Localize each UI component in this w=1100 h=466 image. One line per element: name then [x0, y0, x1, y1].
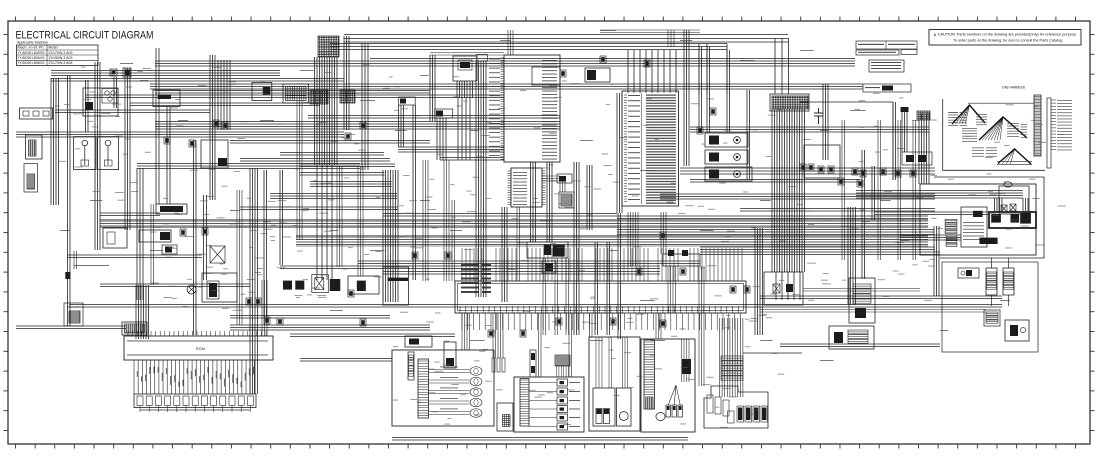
wire bus y262 — [358, 261, 700, 264]
wire bus y95 — [85, 95, 504, 98]
hatch box x559 — [559, 192, 574, 208]
wire bundle x168 — [167, 106, 170, 204]
wire bundle x619 — [617, 93, 622, 213]
wire verticals x462 low — [462, 313, 470, 350]
svg-text:Model: Model — [49, 46, 58, 50]
svg-text:CAB HARNESS: CAB HARNESS — [1002, 86, 1025, 90]
svg-text:Applicable Machine: Applicable Machine — [17, 41, 48, 45]
wire bus y78 left — [51, 79, 344, 82]
wire bundle x503 — [502, 207, 507, 302]
wire bundle x576 — [574, 162, 579, 335]
harness enclosure — [943, 99, 1045, 170]
glow plug box — [453, 54, 487, 81]
resistor col — [408, 352, 414, 380]
wire bus y288 right — [803, 289, 920, 292]
connector x984 low — [984, 310, 1000, 326]
battery symbol — [24, 164, 38, 192]
box x1005 low — [1005, 320, 1029, 341]
box x103 — [103, 228, 127, 248]
wire bus y311 right — [760, 310, 986, 313]
box x829 — [829, 326, 874, 349]
wire bundle x320 dense — [315, 57, 338, 165]
wiper motor cluster box — [589, 337, 640, 431]
relay box x585 — [585, 68, 610, 82]
cluster top box — [405, 336, 432, 347]
wire link monitor — [542, 176, 565, 192]
wire staircase left2 — [240, 153, 395, 167]
connector cap x924 — [917, 111, 930, 120]
wire verticals x540 low — [539, 313, 542, 377]
harness peak 1 — [952, 105, 985, 124]
box x804 — [804, 145, 840, 178]
junction cluster x470 — [461, 264, 491, 293]
fusible link symbols — [110, 68, 131, 77]
connector box x262 — [252, 83, 272, 101]
wire bundle x775 turns — [775, 38, 789, 94]
wire bundle x873 — [872, 166, 875, 220]
ECM harness wires — [134, 360, 254, 394]
label strip 1 — [856, 41, 917, 49]
wire bus y142 — [230, 141, 430, 144]
relay R2 — [435, 109, 453, 118]
connector hatch block top — [318, 36, 339, 57]
inner box relays — [999, 186, 1029, 214]
ECM connector above — [122, 322, 147, 335]
wire bus y71 left — [51, 71, 280, 76]
wires above junction box — [462, 248, 742, 281]
wire bundle x788 dense — [772, 109, 805, 272]
relay unit row 2 — [705, 150, 748, 164]
svg-text:ZX170W-3 A05: ZX170W-3 A05 — [49, 61, 73, 65]
wire bundle x1025 — [1023, 198, 1028, 212]
tall comp x444 — [444, 342, 456, 368]
wire bus y166 left — [137, 164, 360, 169]
buzzer — [162, 245, 177, 254]
wire bundle x619 low — [618, 213, 621, 339]
wire drops top y21 — [600, 30, 700, 47]
svg-text:YY-B02001-B04000: YY-B02001-B04000 — [18, 56, 45, 60]
ECM controller box — [124, 331, 273, 360]
inner outline junction box — [458, 284, 744, 311]
harness right ticks — [1051, 100, 1072, 150]
wire bundle x156 — [156, 48, 159, 204]
wire bus y326 — [230, 325, 430, 330]
wire bus y103 — [130, 103, 320, 106]
solenoid enclosure box — [942, 262, 1038, 352]
wire bus y147 — [398, 147, 504, 152]
wire bus y225 thicken — [100, 220, 928, 227]
wire bundle x320 lower — [317, 165, 332, 280]
harness peak 3 — [998, 149, 1031, 164]
dark row — [979, 238, 997, 244]
pump control enclosure — [920, 184, 1036, 255]
ECM feed bundle right — [262, 280, 267, 336]
wire bus y62 left ext — [155, 61, 370, 66]
wire verticals x338 low — [337, 166, 342, 267]
harness labels right2 — [1007, 123, 1027, 138]
wire bundle x708 — [707, 47, 710, 133]
wire bundle x390 — [383, 170, 398, 302]
wire bundle x414 — [413, 105, 416, 280]
wire bundle x728 — [727, 50, 730, 133]
wire bus y158 — [440, 158, 504, 161]
connector hatch block x788 — [770, 94, 809, 111]
wire bundle x788 low — [776, 272, 800, 300]
relay unit row 3 — [705, 167, 752, 181]
tall connector x530 — [530, 350, 536, 377]
wire bundle x936 — [934, 226, 939, 296]
inner box left — [961, 207, 987, 247]
wire bus y132 left — [16, 132, 344, 137]
wire bus top C — [370, 59, 855, 67]
wire bus y110 — [55, 110, 210, 113]
wire bundle x700 — [699, 47, 702, 133]
small box left — [64, 303, 83, 326]
title text — [16, 30, 154, 42]
terminal grid box — [283, 84, 309, 103]
switch panel cluster box — [514, 377, 584, 432]
wire bundle x432 — [430, 55, 435, 121]
wire bus y255 left — [68, 255, 202, 266]
wire verticals x495 low — [493, 313, 503, 358]
wire bundle below fusepanel — [628, 212, 676, 313]
fuse box — [20, 108, 53, 119]
wire bus y249 — [700, 247, 935, 250]
wire bus y326 left — [16, 326, 126, 329]
connector stack x730 — [721, 356, 743, 380]
svg-text:J/C: J/C — [590, 296, 596, 300]
flasher box — [156, 204, 187, 214]
wire bus boxA feed2 — [875, 212, 989, 215]
wire bus top A — [344, 35, 788, 43]
relay R1 — [399, 97, 416, 105]
lamp L1 — [187, 285, 196, 294]
wire bundle x252 — [250, 168, 258, 394]
solenoid valve unit box — [989, 212, 1036, 228]
wire bus y335 — [290, 334, 455, 337]
wire bus top B — [330, 44, 727, 50]
reservoir box 2 — [98, 137, 119, 170]
relay strip row — [283, 275, 340, 293]
wire bundle x86 — [86, 80, 89, 132]
small box x958 — [958, 268, 979, 278]
wire bus y232 — [617, 230, 934, 235]
harness labels right1 — [976, 114, 987, 125]
svg-text:YY-A00001-B02000: YY-A00001-B02000 — [18, 51, 45, 55]
wire bundle x440 — [437, 118, 446, 160]
capacitor C1 — [814, 108, 823, 124]
wire bus y296 right — [760, 296, 1002, 299]
wire drops tallbox top — [628, 50, 676, 93]
label strip 4 — [863, 84, 911, 92]
wire bus y129 right — [690, 127, 929, 132]
wire bundle x608 — [607, 242, 610, 335]
harness label — [1002, 86, 1025, 90]
wire bus y273 — [383, 272, 660, 275]
wire bundle x221 — [218, 60, 230, 130]
bundle x685 — [682, 339, 690, 382]
harness peak 2 — [979, 117, 1027, 140]
wire bundle x924 — [919, 113, 929, 184]
wire verticals x360 — [358, 166, 363, 276]
wire bundle x533 — [531, 162, 536, 242]
svg-text:ECM: ECM — [196, 346, 205, 351]
wire corner x893 — [800, 102, 893, 180]
wire bundle x125 — [125, 68, 130, 230]
connector hatch pair — [310, 90, 355, 104]
wire bundle x281 — [280, 170, 283, 265]
wire verticals x518 — [517, 207, 520, 281]
wide junction harness box — [455, 281, 746, 313]
svg-text:ZX190W-3 A03: ZX190W-3 A03 — [49, 56, 73, 60]
wire bus y215 left — [100, 213, 160, 216]
box x383 bar — [383, 267, 409, 305]
relay X x210 — [210, 246, 225, 263]
junction box x764 — [764, 272, 803, 305]
oval sensor — [1004, 182, 1012, 187]
wire bus y214 mid — [383, 214, 617, 217]
harness labels left2 — [962, 128, 977, 142]
wire bus y50 mid — [430, 53, 504, 56]
small box x557 — [557, 174, 572, 183]
wires below junction box — [462, 313, 740, 330]
wire bus y305 long — [69, 305, 1002, 308]
wire verticals x840-940 — [842, 120, 916, 260]
svg-text:Mach. in ref. Ph.: Mach. in ref. Ph. — [18, 46, 45, 50]
box x348 — [348, 276, 379, 294]
wire bus y285 — [100, 284, 250, 287]
wire bundle x686 — [684, 30, 689, 166]
component box x201 — [201, 140, 228, 168]
wire bundle x549 — [547, 162, 552, 242]
wire bundle x464 lower — [458, 98, 470, 160]
wire verticals x550-620 mid — [543, 258, 569, 335]
wire bundle x211 — [210, 55, 215, 200]
wire bundle x204 — [204, 195, 207, 280]
label strip 2 — [856, 50, 917, 56]
tiny wire labels — [55, 64, 1066, 428]
cluster wires rm — [596, 337, 628, 388]
wire bus y117 mid — [308, 116, 560, 119]
box x663 — [663, 250, 700, 266]
reservoir box 1 — [74, 137, 96, 170]
wire bundle x759 — [755, 228, 763, 335]
label strip 3 — [869, 60, 904, 72]
wire bus y196 — [660, 194, 935, 199]
wire bus y360 mid — [300, 359, 392, 362]
wire verticals x655 low — [656, 313, 661, 339]
harness labels p3 — [997, 161, 1032, 165]
wire bundle x589 — [587, 165, 592, 230]
caution note box — [929, 30, 1081, 46]
svg-text:▲ CAUTION: Parts numbers on th: ▲ CAUTION: Parts numbers on the drawing … — [933, 33, 1077, 37]
wire bus y124 — [155, 122, 560, 130]
wire verticals x152 mid — [151, 204, 154, 285]
svg-text:ZX170W-3 A03: ZX170W-3 A03 — [49, 51, 73, 55]
wire bundle x705 turns — [699, 44, 727, 95]
wire bus y181 right — [690, 180, 860, 183]
wire bundle x95 — [95, 62, 100, 250]
wire bundle x114 — [114, 77, 117, 108]
wire verticals x446 — [444, 160, 455, 281]
wire name labels — [60, 30, 1010, 361]
connector box x849 — [849, 278, 875, 323]
harness labels left1 — [948, 112, 967, 126]
wire bundle x464 glow — [457, 81, 473, 98]
small inline connectors — [164, 56, 916, 337]
harness labels mid — [972, 148, 997, 157]
harness trunk bar — [1034, 95, 1041, 156]
wire bus y317 — [230, 316, 390, 319]
box x139 — [139, 230, 171, 242]
monitor unit box — [508, 168, 546, 207]
hatch stack B — [946, 235, 957, 247]
wire bus y241 thicken — [296, 236, 928, 246]
wire bundle x194 — [194, 140, 197, 335]
harness bundle x730 — [720, 318, 743, 397]
wire bus y84 — [150, 84, 863, 89]
relay unit row 1 — [705, 133, 748, 147]
work lamp cluster box — [392, 350, 494, 426]
component box with inner parts — [83, 88, 118, 116]
wire bundle x481 — [476, 61, 486, 297]
wire staircase mid-left — [240, 173, 398, 210]
wire bundle x137 ecm feed — [136, 285, 149, 339]
wire bundle x346 — [344, 36, 349, 130]
wire verticals x570 low — [569, 313, 572, 377]
hatch stack A — [945, 219, 957, 233]
wire bus boxA feed3 — [900, 235, 961, 240]
wire verticals x700 low — [699, 266, 704, 386]
wire bundle x998 boxA — [995, 198, 1003, 212]
wire bus y241 — [296, 237, 928, 245]
sensor x542 — [542, 261, 556, 273]
wire bundle x748 — [747, 90, 750, 180]
wire bundle x894 — [893, 102, 896, 180]
pump cluster box — [704, 386, 768, 428]
wire verticals x240 down — [237, 190, 242, 325]
applicable machine label — [17, 41, 48, 45]
wire bundle x851 — [848, 207, 856, 305]
wire bus y267 — [280, 266, 660, 269]
dark block x682 — [682, 359, 691, 374]
wire bus bottom — [392, 438, 688, 441]
horn box — [202, 273, 237, 302]
wire bundle x596 — [595, 242, 598, 335]
wire verticals x590 low — [590, 313, 593, 337]
machine controller MC box — [489, 55, 560, 162]
ECM wire labels — [137, 367, 254, 388]
fuse panel box — [622, 91, 679, 206]
wire bundle x400 — [399, 105, 404, 147]
ECM connector strip — [134, 394, 256, 412]
wire bus y209 — [740, 209, 935, 212]
wire bundle x137 upper — [137, 168, 143, 300]
svg-text:To order parts on the drawing,: To order parts on the drawing, be sure t… — [953, 39, 1063, 43]
wire bundle x374 — [362, 43, 368, 170]
applicable machine table — [17, 45, 99, 66]
wire bus y253 — [700, 252, 940, 255]
wire verticals x300 — [297, 100, 302, 240]
harness strip 2 — [1047, 98, 1051, 168]
wire bus y218 right — [617, 216, 928, 219]
relay box with bar — [153, 90, 180, 107]
wire bundle x825 — [823, 84, 828, 160]
box B outline — [934, 177, 1044, 258]
wire verticals x425 — [423, 160, 428, 281]
connector trio — [492, 358, 505, 372]
wire bus y345 right — [780, 344, 940, 347]
wire bundle x265 — [264, 170, 267, 317]
wire bundle x51 — [51, 78, 59, 205]
light switch cluster box — [641, 339, 695, 432]
wire bundle x863 — [862, 150, 865, 279]
battery relay box — [26, 135, 43, 159]
wire bus y353 — [743, 352, 802, 354]
wire bus boxA feed — [856, 191, 1023, 199]
wire bundle x68 — [65, 75, 70, 326]
wire bus y223 long — [100, 221, 928, 226]
box x527 — [527, 242, 568, 258]
wire bus y170 right — [680, 168, 935, 174]
wire bus y90 midleft — [155, 91, 430, 94]
solenoid pair — [986, 258, 1014, 306]
box x902 — [902, 152, 932, 165]
washer motor box — [497, 403, 513, 431]
wire verticals x63 — [74, 251, 77, 269]
wire bundle x904 — [901, 107, 909, 152]
svg-text:YY-B04001-B06000: YY-B04001-B06000 — [18, 61, 45, 65]
block x555 — [555, 355, 570, 377]
wire verticals x510 top — [508, 30, 513, 55]
